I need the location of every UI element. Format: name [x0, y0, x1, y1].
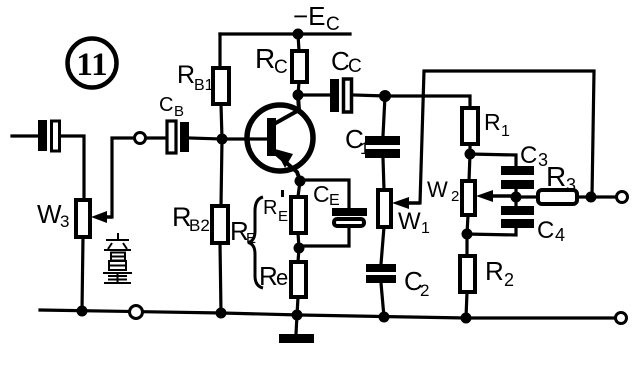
svg-text:2: 2: [504, 270, 514, 290]
svg-text:E: E: [278, 208, 288, 225]
svg-text:E: E: [329, 192, 340, 209]
wire collector to RC: [298, 82, 299, 95]
resistor RB1: [177, 61, 229, 104]
svg-text:R: R: [263, 197, 277, 219]
capacitor C2: [366, 264, 429, 300]
terminal input: [135, 133, 146, 144]
wire node E to Re: [298, 248, 299, 262]
svg-text:B1: B1: [194, 77, 214, 94]
resistor R2: [460, 256, 514, 292]
wire RB2 to ground rail: [220, 243, 221, 313]
node collector junction: [293, 90, 304, 101]
wire W1 to C2: [381, 227, 384, 264]
svg-text:R: R: [255, 43, 275, 74]
resistor R3: [538, 161, 577, 204]
resistor RC: [255, 43, 307, 82]
wiper arrow W3: [91, 211, 112, 223]
wire C2 to ground rail: [381, 283, 384, 317]
node RC rail junction: [293, 29, 304, 40]
svg-text:W: W: [37, 199, 62, 229]
svg-text:e: e: [276, 265, 288, 290]
wire CC to node A: [353, 95, 385, 96]
svg-text:C: C: [537, 217, 554, 244]
wire node B to W2: [469, 154, 470, 181]
svg-text:3: 3: [60, 212, 69, 231]
node base junction: [217, 134, 228, 145]
svg-text:1: 1: [501, 123, 510, 140]
svg-text:R: R: [177, 61, 195, 89]
wire RB1 to base node: [221, 104, 222, 139]
svg-text:R: R: [484, 109, 501, 135]
node B junction: [465, 149, 476, 160]
potentiometer W3: [37, 199, 90, 237]
wire node C to R2: [465, 234, 468, 256]
node output junction: [586, 192, 597, 203]
wire Re to ground rail: [297, 297, 298, 315]
svg-text:C: C: [313, 181, 330, 207]
wire CB to base node: [189, 138, 222, 139]
ground rail wire: [40, 310, 614, 318]
svg-text:B2: B2: [189, 216, 210, 235]
wire node A to C1: [383, 96, 385, 136]
svg-text:C: C: [159, 94, 173, 116]
svg-text:2: 2: [451, 188, 459, 205]
wire input to W3: [60, 136, 84, 200]
svg-text:−E: −E: [293, 1, 326, 31]
wire feedback loop: [420, 71, 594, 203]
capacitor CB: [159, 94, 189, 153]
node W3 rail junction: [77, 306, 88, 317]
wire W3 wiper to terminal: [112, 138, 134, 217]
wire R1 to node B: [468, 144, 471, 154]
wire output node to terminal: [591, 195, 616, 198]
svg-text:C: C: [520, 142, 537, 169]
wire node D to R3: [516, 195, 538, 198]
svg-text:1: 1: [360, 139, 369, 158]
node E junction: [294, 243, 305, 254]
wire emitter to CE: [300, 180, 349, 208]
terminal output bottom: [616, 313, 627, 324]
node C2 rail junction: [379, 312, 390, 323]
capacitor C3: [501, 142, 548, 189]
node D junction: [511, 192, 522, 203]
svg-text:2: 2: [420, 281, 429, 300]
node Re rail junction: [292, 310, 303, 321]
brace RE group: [230, 197, 263, 288]
svg-text:W: W: [398, 208, 421, 235]
wire RE' to node E: [298, 233, 299, 248]
svg-text:4: 4: [555, 225, 565, 245]
wire node D to C4: [514, 197, 517, 206]
svg-text:W: W: [427, 177, 448, 202]
power net label -Ec: [293, 1, 340, 35]
resistor RB2: [172, 202, 228, 243]
wire node B to C3: [470, 154, 516, 166]
resistor Re: [259, 261, 306, 297]
ground: [279, 315, 314, 343]
capacitor C1: [345, 124, 400, 158]
wire node A to R1: [385, 96, 470, 108]
power rail wire: [220, 32, 350, 35]
capacitor C4: [501, 206, 565, 245]
resistor R1: [462, 108, 510, 144]
svg-text:R: R: [485, 256, 504, 286]
capacitor CC: [330, 46, 362, 112]
figure number 11: [68, 39, 117, 88]
wire RC to power rail: [298, 34, 299, 51]
svg-text:E: E: [246, 230, 256, 247]
terminal output top: [617, 192, 628, 203]
transistor Q1: [247, 96, 313, 180]
svg-text:C: C: [326, 14, 340, 35]
wire rail corner to RB1: [218, 34, 221, 68]
wire collector node to CC: [298, 93, 330, 96]
node RB2 rail junction: [216, 308, 227, 319]
resistor RE': [263, 190, 306, 233]
label volume chinese: [103, 233, 132, 283]
wire W3 to ground rail: [82, 237, 83, 311]
wire C1 to W1: [383, 158, 384, 190]
svg-text:C: C: [274, 57, 288, 78]
wire W2 to node C: [467, 215, 468, 234]
wire R3 to output node: [577, 195, 591, 198]
node A: [379, 90, 391, 102]
node R2 rail junction: [461, 313, 472, 324]
wire emitter to RE': [298, 181, 300, 197]
svg-text:1: 1: [421, 220, 430, 237]
wiper arrow W1: [392, 197, 420, 209]
svg-text:11: 11: [76, 47, 107, 83]
svg-text:C: C: [348, 56, 362, 77]
svg-text:C: C: [331, 46, 350, 76]
capacitor CE: [313, 181, 367, 226]
svg-text:R: R: [546, 161, 566, 192]
wire R2 to ground rail: [466, 292, 467, 318]
wire CE to node E: [299, 226, 349, 246]
node C junction: [462, 229, 473, 240]
node emitter junction: [295, 176, 306, 187]
potentiometer W2: [427, 177, 475, 215]
wire C4 to node C: [467, 228, 516, 235]
svg-text:3: 3: [566, 175, 576, 195]
potentiometer W1: [378, 190, 430, 237]
input wire: [12, 134, 38, 137]
wiper arrow W2: [476, 190, 516, 202]
input jack: [38, 120, 60, 151]
terminal rail open: [130, 306, 143, 319]
wire base node to RB2: [221, 139, 222, 206]
wire terminal to CB: [146, 136, 167, 139]
svg-text:B: B: [174, 103, 184, 120]
wire base node to transistor: [222, 137, 267, 140]
wire C3 to node D: [514, 189, 517, 197]
